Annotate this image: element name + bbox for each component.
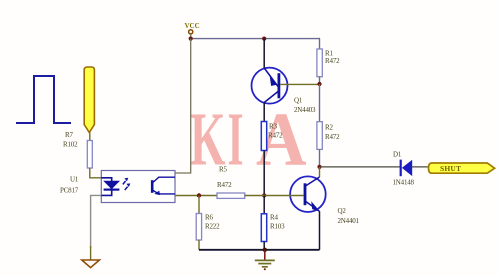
svg-text:I: I	[228, 98, 244, 182]
wire R3 to node	[263, 151, 265, 196]
svg-text:R5: R5	[219, 166, 227, 174]
node ground	[263, 248, 267, 252]
resistor R1	[317, 49, 322, 77]
ground (triangle)	[82, 260, 100, 268]
node base/R1/R2	[317, 82, 321, 86]
wire node to R4	[263, 196, 265, 214]
wire VCC rail down to U1 collector	[175, 39, 191, 173]
transistor Q1 (PNP 2N4403)	[252, 68, 288, 104]
svg-text:R472: R472	[325, 57, 340, 65]
U1 phototransistor collector	[153, 177, 175, 182]
U1 LED cathode lead	[101, 190, 111, 196]
VCC terminal circle	[189, 30, 193, 34]
wire top rail	[191, 38, 320, 40]
svg-text:2N4403: 2N4403	[294, 106, 316, 114]
svg-text:Q1: Q1	[294, 97, 303, 105]
opto-coupler U1 box	[101, 171, 175, 203]
svg-text:R2: R2	[325, 124, 333, 132]
svg-text:PC817: PC817	[60, 187, 79, 195]
svg-text:R472: R472	[217, 181, 232, 189]
output port SHUT (yellow capsule, pointed right)	[429, 163, 495, 173]
svg-text:VCC: VCC	[185, 22, 200, 30]
wire node to R6	[198, 196, 200, 214]
U1 LED cathode bar	[104, 189, 120, 191]
wire VCC stub	[190, 34, 192, 39]
wire R7 to U1 pin1	[90, 168, 102, 178]
wire R1 bottom	[319, 77, 321, 85]
resistor R7	[87, 141, 92, 169]
wire to D1	[320, 166, 401, 168]
svg-text:R472: R472	[268, 132, 283, 140]
U1 LED anode lead	[101, 178, 111, 182]
resistor R3	[261, 122, 266, 151]
diode D1 (1N4148)	[401, 160, 413, 177]
wire port to R7	[89, 133, 91, 141]
node top rail / Q1 emitter	[262, 37, 266, 41]
node at VCC corner	[189, 37, 193, 41]
resistor R4	[261, 214, 266, 242]
wire U1 emitter to R5	[175, 195, 217, 197]
wire R4 bottom	[263, 242, 265, 250]
svg-text:R7: R7	[65, 131, 73, 139]
watermark KIA	[190, 98, 307, 182]
svg-text:D1: D1	[393, 151, 402, 159]
wire R6 bottom	[198, 240, 200, 250]
U1 light arrow 1	[123, 181, 126, 184]
U1 LED triangle	[104, 181, 118, 188]
svg-text:1N4148: 1N4148	[393, 179, 415, 187]
svg-text:2N4401: 2N4401	[338, 217, 360, 225]
node R3/R4/R5/Q2 base	[262, 193, 266, 197]
U1 phototransistor bar	[151, 180, 154, 193]
wire R1 top	[319, 39, 322, 49]
U1 light arrow 2	[125, 187, 128, 190]
resistor R6	[196, 214, 201, 241]
resistor R2	[317, 122, 322, 150]
svg-text:R4: R4	[270, 214, 278, 222]
svg-text:SHUT: SHUT	[440, 164, 461, 173]
svg-text:U1: U1	[70, 176, 79, 184]
svg-text:R222: R222	[205, 223, 220, 231]
ground (3-bar)	[255, 250, 275, 270]
wire R2 top	[319, 84, 321, 122]
pulse waveform input	[16, 76, 71, 123]
wire Q2 base	[264, 195, 303, 197]
wire Q1 collector to R3	[263, 103, 265, 122]
wire Q1 base	[280, 83, 319, 85]
svg-text:Q2: Q2	[338, 207, 347, 215]
node R2/D1/Q2 collector	[317, 165, 321, 169]
wire Q2 collector	[319, 167, 321, 177]
wire Q1 emitter	[263, 39, 265, 68]
wire R5 to node	[245, 195, 265, 197]
transistor Q2 (NPN 2N4401)	[290, 176, 326, 212]
wire R2 bottom	[319, 149, 321, 167]
wire Q2 emitter	[319, 211, 321, 250]
svg-text:R3: R3	[269, 123, 277, 131]
wire D1 to port	[412, 166, 428, 168]
svg-text:R472: R472	[325, 133, 340, 141]
wire U1 pin2 to ground	[91, 195, 102, 248]
svg-text:R6: R6	[205, 214, 213, 222]
U1 phototransistor emitter	[153, 190, 175, 194]
node R5/R6	[197, 193, 201, 197]
svg-text:R102: R102	[63, 141, 78, 149]
resistor R5	[217, 193, 245, 198]
svg-text:R103: R103	[270, 223, 285, 231]
wire bottom rail	[199, 249, 320, 251]
input port (yellow capsule, pointed bottom)	[84, 67, 94, 133]
